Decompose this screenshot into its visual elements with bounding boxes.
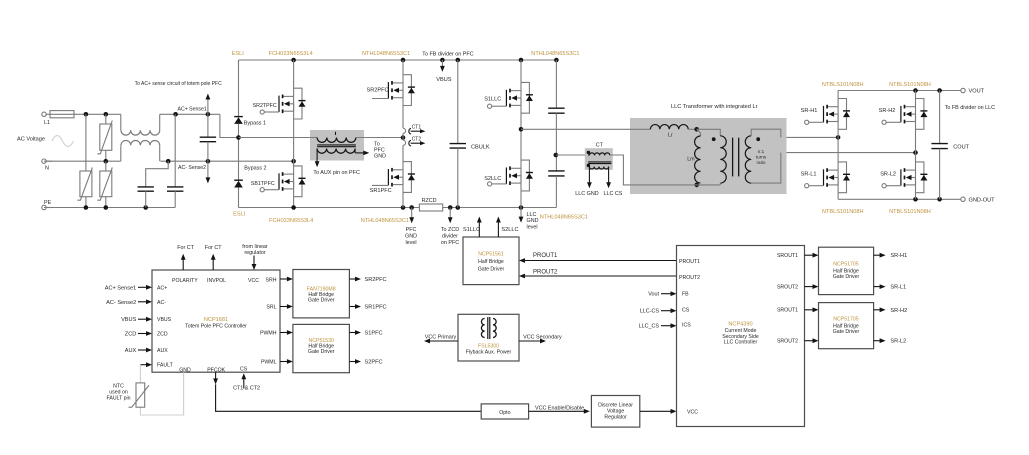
common-mode choke bottom winding: [121, 140, 160, 161]
svg-text:SR2TPFC: SR2TPFC: [253, 103, 277, 109]
label CT: [596, 143, 604, 149]
svg-text:ZCD: ZCD: [157, 332, 168, 338]
label AC+ Sense1: [178, 106, 207, 112]
label NTC used on FAULT pin: [106, 383, 130, 401]
label S2LLC output: [501, 227, 518, 233]
arrow CS pin CT1 and CT2: [241, 373, 246, 388]
wire VCC Enable/Disable: [529, 409, 590, 414]
svg-text:PWMH: PWMH: [260, 330, 277, 336]
svg-text:Gate Driver: Gate Driver: [833, 274, 860, 280]
svg-text:CT1 & CT2: CT1 & CT2: [233, 386, 260, 392]
label CT1 and CT2: [233, 386, 260, 392]
label Totem Pole PFC Controller: [185, 323, 247, 329]
wire DC bus top rail: [239, 58, 559, 63]
svg-text:SR-H1: SR-H1: [890, 253, 907, 259]
wire bottom rail PFC: [239, 205, 557, 210]
wire PROUT2: [519, 274, 677, 279]
label Bypass 2: [244, 166, 266, 172]
label To FB divider on LLC: [945, 105, 995, 111]
label NCP51705 2: [833, 317, 858, 323]
svg-text:Gate Driver: Gate Driver: [308, 298, 335, 304]
terminal VOUT: [961, 88, 985, 94]
wire secondary to SR leg2: [787, 150, 918, 155]
svg-text:SR2PFC: SR2PFC: [367, 88, 389, 94]
svg-text:Lm: Lm: [687, 157, 695, 163]
arrow To ZCD divider on PFC: [448, 208, 453, 224]
svg-text:GND: GND: [527, 218, 539, 224]
terminal GND-OUT: [961, 197, 995, 203]
svg-text:NTHL048N65S3C1: NTHL048N65S3C1: [361, 218, 409, 224]
transformer secondary winding: [745, 129, 781, 183]
svg-text:Bypass 2: Bypass 2: [244, 166, 266, 172]
label Discrete Linear Voltage Regulator: [598, 403, 633, 421]
wire AC+ Sense1 node: [160, 112, 239, 138]
label LLC CS: [604, 191, 623, 197]
label AC- Sense2: [178, 165, 206, 171]
svg-text:LLC_CS: LLC_CS: [639, 324, 660, 330]
svg-text:Flyback Aux. Power: Flyback Aux. Power: [466, 350, 512, 356]
wire SROUT1 to driver1: [805, 253, 819, 258]
svg-text:VBUS: VBUS: [436, 77, 452, 83]
label half bridge gate driver 2: [308, 344, 335, 355]
svg-text:SR-H2: SR-H2: [879, 108, 896, 114]
svg-text:ICS: ICS: [682, 323, 691, 329]
capacitor resonant lower: [548, 153, 564, 208]
terminal PE: [42, 200, 52, 210]
svg-text:SR1PFC: SR1PFC: [365, 305, 387, 311]
svg-text:Bypass 1: Bypass 1: [244, 120, 266, 126]
svg-text:To ZCD: To ZCD: [441, 227, 459, 233]
output SR-L2: [874, 338, 907, 344]
label PROUT1 wire: [533, 253, 558, 259]
svg-text:FB: FB: [682, 292, 689, 298]
input ZCD: [125, 331, 152, 337]
svg-text:PFC: PFC: [374, 148, 385, 154]
svg-text:FAULT pin: FAULT pin: [106, 395, 130, 401]
svg-text:SR1PFC: SR1PFC: [370, 188, 392, 194]
label RZCD: [422, 198, 437, 204]
primary phase dot: [712, 137, 716, 141]
svg-text:NCP51705: NCP51705: [833, 317, 858, 323]
PFC choke block: [310, 130, 364, 161]
arrow LLC GND level: [519, 208, 524, 223]
arrow VCC from linear regulator: [252, 256, 257, 271]
svg-text:S1PFC: S1PFC: [365, 331, 383, 337]
wire N line: [44, 159, 121, 164]
opto block: [481, 404, 528, 419]
label SR2TPFC: [253, 103, 277, 109]
svg-text:FCH023N65S3L4: FCH023N65S3L4: [269, 218, 313, 224]
wire PE line: [44, 205, 175, 210]
varistor RV3 (N-PE): [97, 161, 112, 207]
label NCP51705 1: [833, 262, 858, 268]
arrow For CT polarity pin: [181, 254, 186, 270]
svg-text:GND: GND: [374, 154, 386, 160]
CT1 tap: [403, 119, 425, 138]
svg-text:Regulator: Regulator: [604, 415, 627, 421]
label ESLI bottom: [233, 212, 246, 218]
svg-text:PROUT1: PROUT1: [533, 253, 558, 259]
svg-text:AC+ Sense1: AC+ Sense1: [105, 285, 137, 291]
label NTBLS101N08H top right: [889, 82, 931, 88]
label NCP51530: [309, 338, 334, 344]
gate driver U3 NCP51530 block: [293, 324, 350, 372]
svg-text:ESLI: ESLI: [233, 212, 246, 218]
label NTHL048N65S3C1 bottom: [361, 218, 409, 224]
svg-text:To FB divider on PFC: To FB divider on PFC: [422, 52, 473, 58]
label Bypass 1: [244, 120, 266, 126]
label For CT 1: [177, 245, 194, 251]
svg-text:divider: divider: [442, 234, 458, 240]
label Flyback Aux Power: [466, 350, 512, 356]
svg-text:level: level: [405, 240, 416, 246]
input AC+ Sense1: [105, 285, 152, 291]
label FCH023N65S3L4 top: [269, 51, 313, 57]
wire varistor drop left: [85, 114, 87, 207]
LLC transformer block: [630, 118, 787, 194]
wire PFCOK to opto: [213, 372, 481, 411]
gate driver U2 FAN7190 block: [293, 270, 350, 318]
wire SROUT2 to driver2: [805, 338, 819, 343]
label NCP4390: [728, 322, 752, 328]
svg-text:Lr: Lr: [668, 133, 673, 139]
label SR-H2: [879, 108, 896, 114]
arrow LLC GND: [587, 182, 592, 188]
wire LLC midpoint to transformer: [521, 128, 630, 130]
label SR1PFC: [370, 188, 392, 194]
label NTBLS101N08H top left: [822, 82, 864, 88]
svg-text:NCP51705: NCP51705: [833, 262, 858, 268]
svg-text:Half Bridge: Half Bridge: [478, 259, 504, 265]
label NTBLS101N08H bottom left: [822, 209, 864, 215]
wire SROUT2 to driver1: [805, 284, 819, 289]
varistor RV2: [77, 168, 92, 201]
pin labels NCP1681 bottom: [179, 367, 248, 374]
svg-text:NCP4390: NCP4390: [728, 322, 752, 328]
wire AC node to PFC choke: [239, 137, 318, 139]
gate driver U7 NCP51705 block 2: [819, 303, 874, 349]
label CT1: [412, 125, 422, 131]
svg-text:SB1TPFC: SB1TPFC: [251, 181, 275, 187]
wire SRH to driver: [280, 277, 293, 282]
wire bypass leg bus: [236, 60, 241, 208]
input LLC_CS to ICS: [639, 323, 677, 329]
transistor SR-L1: [805, 162, 850, 193]
svg-text:SR-L1: SR-L1: [801, 171, 817, 177]
capacitor X-cap: [200, 114, 216, 161]
svg-text:S1LLC: S1LLC: [484, 96, 501, 102]
label half bridge gate driver 1: [308, 292, 335, 303]
label NTHL048N65S3C1 bottom right: [540, 214, 588, 220]
input FAULT wire: [140, 362, 152, 367]
transistor SR2PFC: [372, 75, 415, 106]
arrow To PFC GND: [363, 151, 369, 156]
label Lm: [687, 157, 695, 163]
secondary phase dot: [756, 137, 760, 141]
wire PWMH to driver: [280, 330, 293, 335]
svg-text:FCH023N65S3L4: FCH023N65S3L4: [269, 51, 313, 57]
arrow to AC+ sense circuit: [206, 94, 211, 115]
wire PROUT1: [519, 258, 677, 263]
svg-text:RZCD: RZCD: [422, 198, 437, 204]
svg-text:NCP1681: NCP1681: [204, 317, 228, 323]
output S1PFC: [349, 330, 382, 336]
label PFC GND level: [405, 227, 417, 246]
arrow S2LLC gate output: [496, 217, 501, 238]
svg-text:on PFC: on PFC: [441, 240, 459, 246]
svg-text:CS: CS: [240, 367, 248, 373]
input AC- Sense2: [106, 299, 152, 305]
label To AUX pin on PFC: [313, 170, 360, 176]
output SR1PFC: [349, 304, 386, 310]
svg-text:To: To: [374, 142, 380, 148]
wire LLC leg: [519, 60, 524, 208]
arrow VCC Primary: [424, 339, 458, 344]
label NTBLS101N08H bottom right: [889, 209, 931, 215]
svg-text:Opto: Opto: [499, 410, 510, 416]
label VCC Primary: [425, 334, 457, 340]
gate driver U6 NCP51705 block 1: [819, 247, 874, 294]
svg-text:SROUT2: SROUT2: [777, 339, 798, 345]
label To ZCD divider on PFC: [441, 227, 459, 246]
svg-text:POLARITY: POLARITY: [172, 278, 198, 284]
label SR-H1: [801, 108, 818, 114]
input AUX: [125, 348, 152, 354]
label SR2PFC: [367, 88, 389, 94]
svg-text:Gate Driver: Gate Driver: [478, 266, 505, 272]
wire PFC leg: [402, 60, 404, 208]
label CBULK: [471, 144, 490, 150]
fuse L1: [50, 111, 74, 118]
wire GND-OUT rail: [838, 197, 963, 202]
label half bridge gate driver 3: [478, 259, 505, 272]
inductor Lr: [630, 125, 699, 132]
svg-text:S2PFC: S2PFC: [365, 360, 383, 366]
svg-text:INVPOL: INVPOL: [207, 278, 226, 284]
svg-text:n:1: n:1: [758, 149, 765, 154]
input Vout to FB: [648, 291, 676, 297]
svg-text:CS: CS: [682, 308, 690, 314]
svg-text:LLC: LLC: [527, 212, 537, 218]
pin labels NCP1681 left: [157, 285, 174, 368]
svg-text:SROUT1: SROUT1: [777, 308, 798, 314]
svg-text:For CT: For CT: [205, 245, 222, 251]
svg-text:PFCOK: PFCOK: [207, 367, 225, 373]
svg-text:CT: CT: [596, 143, 604, 149]
label NTHL048N65S3C1 top right: [531, 51, 579, 57]
current transformer CT primary: [587, 151, 612, 164]
transistor SR-H2: [882, 99, 927, 130]
current transformer CT secondary: [587, 164, 609, 184]
capacitor COUT: [931, 91, 947, 200]
svg-text:AC-: AC-: [157, 300, 166, 306]
svg-text:CBULK: CBULK: [471, 144, 490, 150]
svg-text:SR-L2: SR-L2: [890, 339, 906, 345]
label FAN7190M8: [307, 286, 336, 292]
wire resonant caps to CT: [556, 154, 588, 156]
label VCC Secondary: [523, 334, 562, 340]
wire SR leg1: [837, 91, 839, 200]
arrow To AUX pin on PFC: [315, 161, 320, 167]
wire SROUT1 to driver2: [805, 307, 819, 312]
svg-text:LLC Transformer with integrate: LLC Transformer with integrated Lr: [671, 104, 758, 110]
output S2PFC: [349, 359, 382, 365]
wire AC- Sense2 node: [160, 159, 296, 164]
label CT2: [412, 137, 422, 143]
inductor PFC choke aux winding: [317, 149, 364, 163]
varistor RV1 (L-N): [97, 114, 112, 161]
svg-text:N: N: [45, 166, 49, 172]
transformer primary winding: [697, 129, 727, 185]
wire PFC choke output: [356, 135, 405, 140]
wire secondary to SR leg1: [787, 135, 841, 140]
diode Bypass 1: [234, 117, 243, 124]
terminal L (line input): [42, 112, 50, 126]
svg-text:VCC: VCC: [687, 410, 698, 416]
resistor RZCD: [419, 204, 442, 211]
svg-text:Gate Driver: Gate Driver: [308, 349, 335, 355]
wire CT to transformer bottom: [610, 155, 630, 185]
label LLC Transformer with integrated Lr: [671, 104, 758, 110]
svg-text:level: level: [527, 224, 538, 230]
op-amp U5 NCP4390 LLC controller block: [677, 246, 805, 427]
svg-text:Gate Driver: Gate Driver: [833, 329, 860, 335]
label VCC Enable/Disable: [535, 405, 584, 411]
label NCP51561: [478, 251, 503, 257]
flyback transformer symbol: [481, 317, 496, 339]
input LLC-CS to CS: [640, 308, 677, 314]
svg-text:NTHL048N65S3C1: NTHL048N65S3C1: [531, 51, 579, 57]
transistor SR1PFC: [372, 162, 415, 193]
transistor S1LLC: [488, 82, 533, 113]
wire SR leg2: [915, 91, 917, 200]
label PROUT2 wire: [533, 270, 558, 276]
transistor SR2TPFC: [260, 88, 305, 119]
thermistor NTC: [129, 383, 149, 407]
svg-text:NTBLS101N08H: NTBLS101N08H: [822, 209, 864, 215]
label S1LLC output: [463, 227, 480, 233]
svg-text:FSL5300: FSL5300: [478, 344, 499, 350]
terminal N: [42, 159, 52, 172]
svg-text:VCC Enable/Disable: VCC Enable/Disable: [535, 405, 584, 411]
transistor S2LLC: [488, 160, 533, 191]
svg-text:VCC Secondary: VCC Secondary: [523, 334, 562, 340]
label n:1 turns ratio: [756, 149, 767, 165]
discrete linear voltage regulator block: [591, 396, 639, 428]
transistor SR-L2: [882, 162, 927, 193]
svg-text:L1: L1: [44, 120, 50, 126]
svg-text:SR-H2: SR-H2: [890, 308, 907, 314]
capacitor CBULK: [450, 60, 466, 208]
op-amp U1 NCP1681 PFC controller block: [152, 270, 280, 372]
label SR-L1: [801, 171, 817, 177]
svg-text:VCC: VCC: [248, 278, 259, 284]
svg-text:SRL: SRL: [266, 304, 276, 310]
diode Bypass 2: [234, 180, 243, 187]
svg-text:PWML: PWML: [261, 359, 277, 365]
label For CT 2: [205, 245, 222, 251]
label To FB divider on PFC: [422, 52, 473, 58]
wire SRL to driver: [280, 304, 293, 309]
common-mode choke top winding: [121, 114, 160, 135]
svg-text:SR-L1: SR-L1: [890, 285, 906, 291]
arrow VBUS: [440, 60, 445, 72]
capacitor resonant upper: [548, 60, 564, 155]
label COUT: [953, 144, 969, 150]
label SR-L2: [880, 171, 896, 177]
svg-text:VOUT: VOUT: [969, 89, 985, 95]
svg-text:To AUX pin on PFC: To AUX pin on PFC: [313, 170, 360, 176]
svg-text:ratio: ratio: [757, 160, 766, 165]
output SR-H2: [874, 307, 908, 313]
flyback aux power block: [458, 314, 519, 361]
svg-text:PFC: PFC: [406, 227, 417, 233]
wire L phase top: [74, 112, 121, 117]
svg-text:VCC Primary: VCC Primary: [425, 334, 457, 340]
svg-text:NTHL048N65S3C1: NTHL048N65S3C1: [540, 214, 588, 220]
svg-text:AC- Sense2: AC- Sense2: [178, 165, 206, 171]
svg-text:PROUT2: PROUT2: [679, 275, 700, 281]
pin labels NCP4390 right: [777, 253, 798, 345]
svg-text:ZCD: ZCD: [125, 332, 137, 338]
svg-text:NTBLS101N08H: NTBLS101N08H: [822, 82, 864, 88]
capacitor CY1: [138, 161, 169, 207]
NTC network wires: [140, 365, 183, 415]
inductor PFC choke primary: [317, 132, 356, 147]
output SR-H1: [874, 253, 908, 259]
wire regulator to VCC: [640, 409, 677, 414]
input VBUS: [121, 317, 152, 323]
svg-text:LLC-CS: LLC-CS: [640, 309, 660, 315]
svg-text:AC- Sense2: AC- Sense2: [106, 300, 136, 306]
transformer core: [733, 138, 739, 177]
svg-text:Vout: Vout: [648, 292, 659, 298]
transistor SR-H1: [805, 99, 850, 130]
svg-text:AC+ Sense1: AC+ Sense1: [178, 106, 207, 112]
arrow AC- Sense2 down: [206, 161, 211, 183]
label To PFC GND: [374, 142, 386, 160]
CT2 tap: [403, 138, 425, 150]
label SB1TPFC: [251, 181, 275, 187]
svg-text:VBUS: VBUS: [157, 317, 172, 323]
label NTHL048N65S3C1 top left: [362, 51, 410, 57]
label NCP1681: [204, 317, 228, 323]
svg-text:NTHL048N65S3C1: NTHL048N65S3C1: [362, 51, 410, 57]
svg-text:CT2: CT2: [412, 137, 422, 143]
svg-text:For CT: For CT: [177, 245, 194, 251]
arrow S1LLC gate output: [477, 217, 482, 238]
svg-text:SROUT2: SROUT2: [777, 284, 798, 290]
svg-text:SR-L2: SR-L2: [880, 171, 896, 177]
label S1LLC: [484, 96, 501, 102]
svg-text:NTBLS101N08H: NTBLS101N08H: [889, 82, 931, 88]
svg-text:To AC+ sense circuit of totem: To AC+ sense circuit of totem pole PFC: [135, 81, 223, 87]
pin labels NCP1681 top: [172, 278, 259, 284]
svg-text:turns: turns: [756, 155, 767, 160]
svg-text:LLC Controller: LLC Controller: [724, 340, 758, 346]
label LLC GND level: [527, 212, 539, 230]
output SR2PFC: [349, 277, 386, 283]
label Current Mode Secondary Side LLC Controller: [722, 328, 759, 346]
svg-text:GND: GND: [405, 234, 417, 240]
svg-text:AUX: AUX: [125, 348, 137, 354]
svg-text:CT1: CT1: [412, 125, 422, 131]
svg-text:AC Voltage: AC Voltage: [17, 137, 45, 143]
arrow PFC GND level: [409, 208, 414, 224]
label half bridge gate driver 5: [833, 323, 860, 334]
inductor Lm: [694, 129, 700, 187]
label AC Voltage: [17, 137, 45, 143]
